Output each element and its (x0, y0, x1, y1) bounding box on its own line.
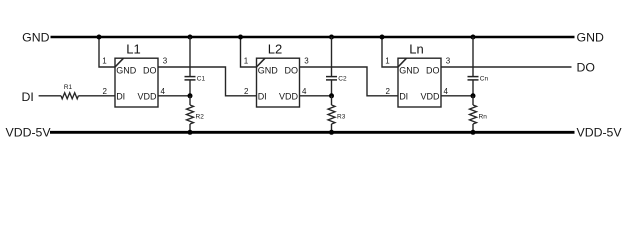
svg-text:VDD-5V: VDD-5V (577, 125, 623, 139)
junction node on VDD-5V bus at x=473.0 (471, 130, 476, 135)
resistor R2 (187, 105, 194, 124)
svg-text:Cn: Cn (480, 76, 489, 83)
junction node VDD pin / R3 (329, 93, 334, 98)
L1 pin-1 corner mark (115, 58, 124, 67)
svg-text:GND: GND (116, 66, 137, 76)
svg-text:R2: R2 (196, 113, 205, 120)
resistor Rn (470, 105, 477, 124)
junction node on GND bus above C1 (188, 35, 193, 40)
wire R1 to L1 pin 2 (78, 95, 115, 97)
svg-text:DO: DO (285, 66, 299, 76)
wire VDD node down to R2 (189, 96, 191, 105)
svg-text:DI: DI (116, 91, 125, 101)
svg-text:DI: DI (399, 91, 408, 101)
wire GND bus down to capacitor C2 (331, 37, 333, 76)
capacitor C2 (326, 76, 337, 78)
VDD-5V bus wire (bottom rail) (50, 131, 575, 134)
wire capacitor C2 to VDD node (331, 80, 333, 96)
junction node VDD pin / R2 (188, 93, 193, 98)
svg-text:DO: DO (426, 66, 440, 76)
junction node on GND bus at x=240.5 (238, 35, 243, 40)
junction node on VDD-5V bus at x=190.0 (188, 130, 193, 135)
GND bus wire (top rail) (51, 36, 575, 38)
svg-text:2: 2 (102, 87, 107, 96)
svg-text:DO: DO (143, 66, 157, 76)
IC L1 (LED driver) (115, 58, 158, 107)
wire DI to R1 (39, 95, 61, 97)
IC L2 (LED driver) (257, 58, 300, 107)
junction node on GND bus above Cn (471, 35, 476, 40)
capacitor Cn (468, 76, 479, 78)
wire VDD node down to R3 (331, 96, 333, 105)
junction node on GND bus at x=99.0 (97, 35, 102, 40)
svg-text:3: 3 (163, 57, 168, 66)
svg-text:VDD: VDD (420, 91, 440, 101)
wire GND bus down to capacitor C1 (189, 37, 191, 76)
wire GND bus down to L1 pin 1 (99, 37, 115, 67)
wire R3 to VDD-5V bus (331, 124, 333, 132)
svg-text:DI: DI (22, 90, 34, 104)
wire capacitor Cn to VDD node (472, 80, 474, 96)
wire Ln DO (pin 3) to DO output (441, 66, 572, 68)
svg-text:4: 4 (160, 87, 165, 96)
svg-text:GND: GND (577, 30, 604, 44)
svg-text:GND: GND (22, 30, 49, 44)
wire capacitor C1 to VDD node (189, 80, 191, 96)
svg-text:GND: GND (258, 66, 279, 76)
svg-text:1: 1 (244, 57, 249, 66)
L2 pin-1 corner mark (257, 58, 266, 67)
svg-text:4: 4 (443, 87, 448, 96)
svg-text:C2: C2 (338, 76, 347, 83)
capacitor C1 (185, 76, 196, 78)
svg-text:L2: L2 (268, 41, 282, 56)
svg-text:L1: L1 (126, 41, 140, 56)
wire L1 pin 4 (VDD) to column (158, 95, 190, 97)
wire GND bus down to Ln pin 1 (382, 37, 398, 67)
svg-text:1: 1 (385, 57, 390, 66)
wire L1 DO (pin 3) to next stage DI (pin 2) (158, 67, 257, 96)
svg-text:2: 2 (385, 87, 390, 96)
svg-text:VDD-5V: VDD-5V (6, 125, 52, 139)
svg-text:Rn: Rn (479, 113, 488, 120)
svg-text:VDD: VDD (279, 91, 299, 101)
wire Ln pin 4 (VDD) to column (441, 95, 473, 97)
junction node VDD pin / Rn (471, 93, 476, 98)
svg-text:R1: R1 (64, 84, 73, 91)
svg-text:R3: R3 (337, 113, 346, 120)
junction node on VDD-5V bus at x=331.5 (329, 130, 334, 135)
IC Ln (LED driver) (398, 58, 441, 107)
wire GND bus down to capacitor Cn (472, 37, 474, 76)
svg-text:GND: GND (399, 66, 420, 76)
resistor R1 (series data input) (61, 93, 78, 99)
svg-text:VDD: VDD (137, 91, 157, 101)
junction node on GND bus above C2 (329, 35, 334, 40)
svg-text:Ln: Ln (409, 41, 423, 56)
svg-text:2: 2 (244, 87, 249, 96)
wire L2 DO (pin 3) to next stage DI (pin 2) (300, 67, 399, 96)
svg-text:3: 3 (446, 57, 451, 66)
svg-text:C1: C1 (197, 76, 206, 83)
svg-text:3: 3 (304, 57, 309, 66)
wire GND bus down to L2 pin 1 (241, 37, 257, 67)
svg-text:DO: DO (577, 61, 595, 75)
junction node on GND bus at x=382.0 (380, 35, 385, 40)
svg-text:1: 1 (102, 57, 107, 66)
Ln pin-1 corner mark (398, 58, 407, 67)
wire R2 to VDD-5V bus (189, 124, 191, 132)
svg-text:DI: DI (258, 91, 267, 101)
wire VDD node down to Rn (472, 96, 474, 105)
wire L2 pin 4 (VDD) to column (300, 95, 332, 97)
wire Rn to VDD-5V bus (472, 124, 474, 132)
svg-text:4: 4 (302, 87, 307, 96)
resistor R3 (328, 105, 335, 124)
